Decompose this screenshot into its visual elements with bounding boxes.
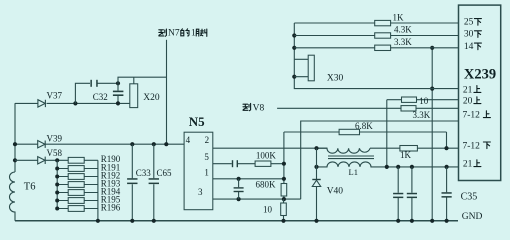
resistor R192 [57, 176, 98, 178]
wire 432 vertical to ground [431, 48, 433, 221]
wire toV8 3.3K line [277, 107, 458, 109]
svg-text:10: 10 [263, 204, 273, 214]
diode V39 [38, 141, 46, 148]
svg-text:C65: C65 [157, 168, 173, 178]
svg-text:20: 20 [463, 97, 473, 107]
wire X30 left bus [294, 23, 458, 89]
svg-text:V37: V37 [47, 91, 63, 101]
connector X239 box [459, 5, 501, 180]
svg-text:6.8K: 6.8K [355, 121, 373, 131]
svg-text:14: 14 [464, 42, 474, 52]
inductor T6 [10, 172, 16, 221]
resistor 6.8K [339, 129, 359, 134]
node junction B bottom [116, 101, 120, 105]
node dots 21shang lower line [385, 165, 389, 169]
svg-text:X239: X239 [464, 67, 496, 83]
resistor R193 [57, 184, 98, 186]
svg-text:2: 2 [205, 135, 210, 145]
svg-text:21: 21 [463, 85, 473, 95]
capacitor series near C32 [90, 80, 92, 87]
svg-text:3.3K: 3.3K [394, 37, 412, 47]
wire 387 bus [386, 100, 388, 167]
label to N7 pin1 [159, 29, 167, 36]
svg-text:L1: L1 [349, 167, 358, 177]
node dot 6.8K corner to 7-12xia [444, 146, 448, 150]
svg-text:7-12: 7-12 [463, 111, 481, 121]
wire V58 line [15, 159, 98, 161]
svg-text:GND: GND [462, 212, 483, 222]
svg-text:1K: 1K [393, 12, 405, 22]
svg-text:7-12: 7-12 [463, 142, 481, 152]
resistor 10 top right [387, 99, 459, 101]
diode V40 [312, 180, 320, 186]
node dot V58 out [55, 158, 59, 162]
capacitor pin1-pin3 [237, 177, 241, 181]
resistor R190 [68, 157, 84, 163]
svg-text:C33: C33 [136, 168, 152, 178]
diode V37 [38, 100, 46, 107]
node junction A [73, 101, 77, 105]
resistor 4.3K [294, 35, 458, 37]
connector X20 [130, 84, 138, 108]
node dot left bus V39 [13, 142, 17, 146]
wire C32 upper branch [75, 83, 118, 103]
resistor 3.3K mid [401, 106, 416, 111]
svg-text:V40: V40 [327, 186, 344, 196]
svg-text:3: 3 [198, 187, 203, 197]
svg-text:4: 4 [186, 135, 191, 145]
svg-text:V39: V39 [47, 133, 63, 143]
svg-text:V58: V58 [47, 148, 63, 158]
transformer L1 top winding [317, 148, 371, 153]
wire pin1 line [213, 178, 284, 180]
diode V58 [38, 157, 46, 164]
wire main top-left V37 line [15, 102, 130, 104]
transformer L1 core [328, 156, 374, 159]
resistor R196 [57, 208, 98, 210]
svg-text:680K: 680K [256, 180, 277, 190]
resistor 680K [281, 184, 287, 197]
svg-text:1: 1 [204, 168, 209, 178]
svg-text:C35: C35 [461, 192, 478, 203]
capacitor C35 [446, 167, 448, 221]
wire ground rail [15, 220, 458, 222]
resistor R191 [57, 168, 98, 170]
capacitor series pin5 [232, 160, 233, 167]
svg-text:100K: 100K [256, 150, 277, 160]
wire pin2 line to X239 7-12 xia [213, 147, 459, 149]
op-amp U1 IC N5 box [184, 132, 213, 210]
svg-text:V8: V8 [253, 103, 265, 113]
svg-text:1: 1 [191, 29, 196, 39]
resistor 1K bottom [400, 146, 418, 152]
node dot rbank rail [96, 219, 100, 223]
transformer L1 bottom winding [317, 162, 459, 167]
svg-text:3.3K: 3.3K [413, 110, 431, 120]
capacitor C33 [130, 142, 134, 146]
wire resistor bank left bus [56, 160, 58, 208]
resistor R195 [57, 200, 98, 202]
svg-text:4.3K: 4.3K [394, 25, 412, 35]
svg-text:R196: R196 [101, 202, 121, 212]
resistor R194 [57, 192, 98, 194]
wire pin3 riser [301, 121, 459, 199]
resistor 3.3K top [294, 47, 458, 49]
capacitor C65 [152, 142, 156, 146]
label to V8 [243, 103, 251, 110]
svg-text:25: 25 [464, 18, 474, 28]
resistor 1K top [294, 22, 458, 24]
svg-text:N5: N5 [189, 114, 205, 129]
svg-text:X20: X20 [143, 93, 160, 103]
capacitor at 398 [397, 167, 399, 221]
svg-text:30: 30 [464, 30, 474, 40]
svg-text:1K: 1K [400, 150, 412, 160]
wire X20 top link [118, 77, 167, 84]
connector X30 [294, 59, 308, 76]
svg-text:10: 10 [419, 96, 429, 106]
node dot N7 vertical joins pin4 wire [164, 142, 168, 146]
wire 6.8K line [284, 132, 447, 148]
wire left bus [14, 103, 16, 172]
svg-text:T6: T6 [24, 182, 36, 193]
capacitor C32 [117, 83, 119, 103]
node junction B top [116, 81, 120, 85]
wire 284 vertical node [283, 132, 285, 184]
svg-text:C32: C32 [93, 92, 108, 102]
svg-text:21: 21 [463, 160, 473, 170]
resistor 10 vertical [283, 199, 285, 221]
node dot left bus V58 [13, 158, 17, 162]
svg-text:N7: N7 [168, 29, 180, 39]
wire V40 vertical [316, 148, 318, 221]
svg-text:5: 5 [204, 152, 209, 162]
wire pin5 line [213, 163, 284, 165]
wire resistor bank right bus [97, 160, 99, 221]
capacitor at 412 [411, 167, 413, 221]
wire pin3 line [213, 198, 301, 200]
wire vertical from N7 label [166, 40, 168, 144]
svg-text:X30: X30 [327, 74, 344, 84]
resistor 100K [255, 161, 271, 166]
wire V39 / pin4 line [15, 143, 184, 145]
